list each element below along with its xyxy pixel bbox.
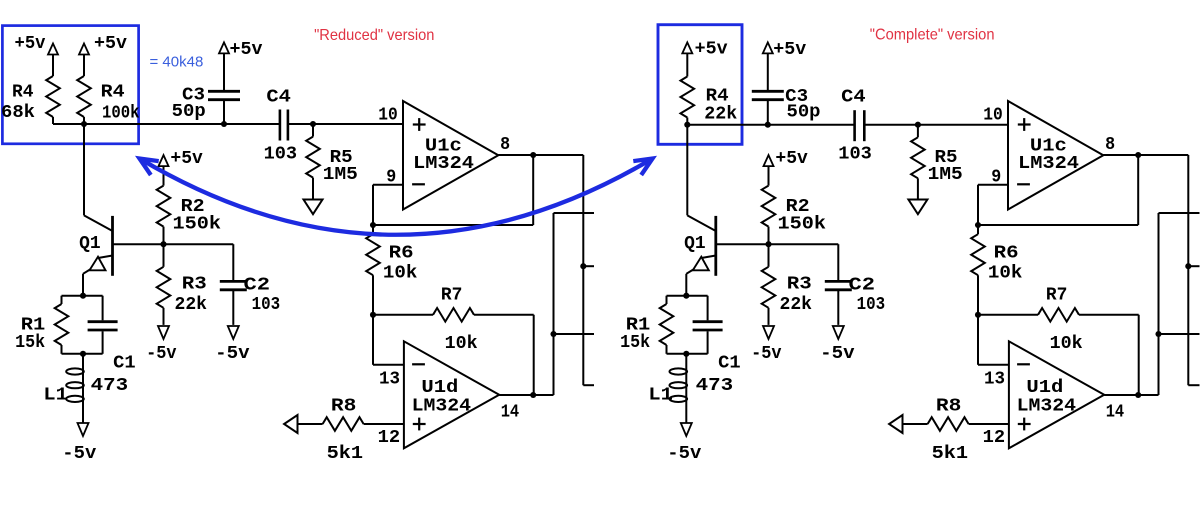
svg-text:473: 473 <box>696 376 734 396</box>
wire: R7 to output column <box>474 314 534 316</box>
node: emitter / tank top junction <box>683 293 689 299</box>
wire: C4 to U1c pin 10 <box>288 123 403 125</box>
blue double-headed arrow between R4 boxes <box>140 159 653 235</box>
power +5v arrow (R2) <box>159 155 169 166</box>
node: tank bottom junction <box>683 351 689 357</box>
svg-text:-5v: -5v <box>667 444 701 464</box>
capacitor C1 473 <box>707 296 709 321</box>
svg-text:R6: R6 <box>389 244 414 264</box>
capacitor C3 50p <box>752 90 784 93</box>
svg-text:+5v: +5v <box>773 40 806 60</box>
svg-text:150k: 150k <box>778 215 827 235</box>
wire: R7 to output column <box>1079 314 1139 316</box>
U1d plus input marking <box>1018 423 1031 425</box>
wire: output bus column A <box>1158 213 1160 395</box>
blue highlight box (reduced R4 pair) <box>2 26 138 144</box>
resistor R5 1M5 <box>312 124 314 137</box>
wire: main node row to C4 <box>53 123 280 125</box>
inductor L1 <box>685 354 687 423</box>
svg-text:12: 12 <box>983 428 1006 448</box>
wire: U1c output pin 8 <box>1103 154 1188 156</box>
svg-text:+5v: +5v <box>695 40 728 60</box>
wire: R8 to pin 12 <box>969 423 1009 425</box>
wire: pin 9 stub <box>978 184 1008 186</box>
svg-text:8: 8 <box>1105 135 1115 155</box>
svg-text:12: 12 <box>378 428 401 448</box>
node: column B junction <box>580 263 586 269</box>
power +5v arrow (C3) <box>763 42 773 53</box>
U1c minus input marking <box>1017 183 1030 185</box>
svg-text:R8: R8 <box>331 397 357 417</box>
svg-text:15k: 15k <box>15 333 45 353</box>
capacitor C1 473 <box>102 296 104 321</box>
node: column A junction <box>550 331 556 337</box>
svg-text:10: 10 <box>983 106 1003 126</box>
svg-text:Q1: Q1 <box>79 234 101 254</box>
resistor R7 10k <box>1038 308 1079 322</box>
node: tank bottom junction <box>80 351 86 357</box>
input port arrow (R8) <box>284 415 297 433</box>
node: R6 / R7 junction <box>975 312 981 318</box>
op-amp U1d LM324 <box>404 341 499 448</box>
node: column B junction <box>1185 263 1191 269</box>
node: R4 pair junction <box>81 121 87 127</box>
power -5v arrow (L1) <box>78 423 89 436</box>
power +5v arrow (R4 22k) <box>682 42 692 53</box>
svg-text:10k: 10k <box>1050 334 1083 354</box>
U1c plus input marking <box>1018 123 1031 125</box>
svg-text:10k: 10k <box>445 334 478 354</box>
resistor R2 150k <box>762 186 776 227</box>
svg-text:-5v: -5v <box>62 444 96 464</box>
svg-text:R8: R8 <box>936 397 962 417</box>
wire: output bus column B <box>582 155 584 385</box>
wire: C4 to U1c pin 10 <box>864 124 1008 126</box>
power +5v arrow (R4 68k) <box>48 44 58 55</box>
svg-text:150k: 150k <box>173 215 222 235</box>
svg-text:50p: 50p <box>787 103 821 123</box>
svg-text:10k: 10k <box>988 264 1023 284</box>
svg-text:R4: R4 <box>12 83 34 103</box>
svg-text:8: 8 <box>500 135 510 155</box>
svg-text:-5v: -5v <box>146 344 177 364</box>
svg-text:5k1: 5k1 <box>932 444 969 464</box>
svg-text:68k: 68k <box>1 103 35 123</box>
wire: tank bottom rail <box>667 353 708 355</box>
svg-text:LM324: LM324 <box>412 397 472 417</box>
power +5v arrow (C3) <box>219 42 229 53</box>
capacitor C4 103 <box>279 110 282 141</box>
wire: output bus column B <box>1187 155 1189 385</box>
node: C3 junction <box>765 122 771 128</box>
svg-text:1M5: 1M5 <box>323 165 358 185</box>
svg-text:-5v: -5v <box>820 344 855 364</box>
svg-text:R6: R6 <box>994 244 1019 264</box>
svg-text:13: 13 <box>379 370 400 390</box>
wire: tank top rail <box>62 295 103 297</box>
ground symbol (R5) <box>908 200 927 215</box>
svg-text:LM324: LM324 <box>1018 154 1079 174</box>
resistor R2 150k <box>157 186 171 227</box>
svg-text:R3: R3 <box>182 275 207 295</box>
svg-text:L1: L1 <box>648 386 673 406</box>
capacitor C4 103 <box>853 110 856 141</box>
wire: pin 9 stub <box>373 184 403 186</box>
resistor R8 5k1 <box>323 417 364 431</box>
wire: Q1 base row <box>113 243 234 245</box>
svg-text:13: 13 <box>984 370 1005 390</box>
svg-text:103: 103 <box>838 144 872 164</box>
blue highlight box (complete R4) <box>658 25 742 145</box>
svg-text:"Complete" version: "Complete" version <box>870 27 995 44</box>
svg-text:"Reduced" version: "Reduced" version <box>314 27 434 44</box>
svg-text:15k: 15k <box>620 333 650 353</box>
wire: node to Q1 collector <box>83 124 85 215</box>
svg-text:+5v: +5v <box>15 34 46 54</box>
svg-text:C2: C2 <box>849 276 876 296</box>
wire: node to R7 <box>978 314 1038 316</box>
resistor R1 15k <box>666 296 668 304</box>
op-amp U1d LM324 <box>1009 341 1104 448</box>
wire: node to Q1 collector <box>686 125 688 216</box>
svg-text:473: 473 <box>91 376 129 396</box>
svg-text:+5v: +5v <box>230 40 263 60</box>
svg-text:LM324: LM324 <box>413 154 474 174</box>
resistor R3 22k <box>768 244 770 267</box>
U1c plus input marking <box>413 123 426 125</box>
op-amp U1c LM324 <box>1008 101 1103 210</box>
power +5v arrow (R2) <box>764 155 774 166</box>
svg-text:10k: 10k <box>383 264 418 284</box>
svg-text:C1: C1 <box>718 354 741 374</box>
node: R4 junction <box>684 122 690 128</box>
svg-text:22k: 22k <box>780 295 813 315</box>
power -5v arrow (R3) <box>158 326 169 339</box>
svg-text:C1: C1 <box>113 354 136 374</box>
wire: U1d output pin 14 <box>499 394 553 396</box>
svg-text:Q1: Q1 <box>684 234 706 254</box>
U1c minus input marking <box>412 183 425 185</box>
svg-text:R3: R3 <box>787 275 812 295</box>
resistor R4 22k <box>681 77 695 118</box>
node: emitter / tank top junction <box>80 293 86 299</box>
svg-text:50p: 50p <box>172 102 206 122</box>
wire: tank top rail <box>667 295 708 297</box>
resistor R1 15k <box>61 296 63 304</box>
node: C3 junction <box>221 121 227 127</box>
wire: output bus column A <box>553 213 555 395</box>
resistor R8 5k1 <box>928 417 969 431</box>
svg-text:103: 103 <box>252 295 281 315</box>
svg-text:C4: C4 <box>841 88 866 108</box>
svg-text:103: 103 <box>857 295 886 315</box>
wire: Q1 base row <box>716 243 839 245</box>
capacitor C2 103 <box>837 244 839 280</box>
resistor R5 1M5 <box>917 125 919 138</box>
U1d minus input marking <box>1017 363 1030 365</box>
resistor R4 100k <box>77 76 91 117</box>
node: base / R2 / R3 junction <box>160 241 166 247</box>
node: R7 feedback junction <box>1135 392 1141 398</box>
node: column A junction <box>1155 331 1161 337</box>
svg-text:R7: R7 <box>441 286 463 306</box>
svg-text:+5v: +5v <box>170 149 203 169</box>
svg-text:+5v: +5v <box>94 34 127 54</box>
capacitor C3 50p <box>208 90 240 93</box>
svg-text:C4: C4 <box>266 88 291 108</box>
resistor R3 22k <box>163 244 165 267</box>
power -5v arrow (R3) <box>763 326 774 339</box>
node: R5 junction <box>310 121 316 127</box>
svg-text:U1d: U1d <box>421 378 458 398</box>
U1d minus input marking <box>412 363 425 365</box>
svg-text:103: 103 <box>264 144 298 164</box>
svg-text:100k: 100k <box>102 104 140 124</box>
svg-text:C2: C2 <box>244 276 271 296</box>
power +5v arrow (R4 100k) <box>79 44 89 55</box>
input port arrow (R8) <box>889 415 902 433</box>
ground symbol (R5) <box>304 200 323 215</box>
wire: main node row to C4 <box>687 124 854 126</box>
node: pin 9 / R6 junction <box>975 222 981 228</box>
svg-text:22k: 22k <box>704 105 737 125</box>
wire: tank bottom rail <box>62 353 103 355</box>
svg-text:5k1: 5k1 <box>327 444 364 464</box>
wire: U1c output pin 8 <box>498 154 583 156</box>
power -5v arrow (C2) <box>228 326 239 339</box>
wire: node to pin 13 <box>977 315 979 365</box>
svg-text:-5v: -5v <box>751 344 782 364</box>
svg-text:L1: L1 <box>43 386 68 406</box>
node: R6 / R7 junction <box>370 312 376 318</box>
svg-text:R4: R4 <box>101 83 125 103</box>
node: R7 feedback junction <box>530 392 536 398</box>
node: pin 9 / R6 junction <box>370 222 376 228</box>
node: U1c output junction <box>530 152 536 158</box>
svg-text:1M5: 1M5 <box>928 165 963 185</box>
resistor R6 10k <box>977 225 979 234</box>
inductor L1 <box>82 354 84 423</box>
wire: port to R8 <box>903 423 928 425</box>
wire: feedback pin8 to pin9 node <box>1137 155 1139 225</box>
node: base / R2 / R3 junction <box>765 241 771 247</box>
resistor R4 68k <box>46 76 60 117</box>
wire: node to pin 13 <box>372 315 374 365</box>
svg-text:14: 14 <box>1106 403 1125 423</box>
svg-text:U1d: U1d <box>1026 378 1063 398</box>
wire: feedback pin8 to pin9 node <box>532 155 534 225</box>
U1d plus input marking <box>413 423 426 425</box>
node: R5 junction <box>915 122 921 128</box>
svg-text:R7: R7 <box>1046 286 1068 306</box>
svg-text:= 40k48: = 40k48 <box>150 53 204 70</box>
resistor R7 10k <box>433 308 474 322</box>
node: U1c output junction <box>1135 152 1141 158</box>
svg-text:22k: 22k <box>175 295 208 315</box>
wire: R8 to pin 12 <box>364 423 404 425</box>
power -5v arrow (L1) <box>681 423 692 436</box>
resistor R6 10k <box>372 225 374 234</box>
wire: port to R8 <box>298 423 323 425</box>
capacitor C2 103 <box>232 244 234 280</box>
wire: node to R7 <box>373 314 433 316</box>
op-amp U1c LM324 <box>403 101 498 210</box>
svg-text:-5v: -5v <box>215 344 250 364</box>
svg-text:LM324: LM324 <box>1017 397 1077 417</box>
transistor Q1 <box>687 215 716 231</box>
svg-text:14: 14 <box>501 403 520 423</box>
transistor Q1 <box>84 215 113 231</box>
power -5v arrow (C2) <box>833 326 844 339</box>
svg-text:+5v: +5v <box>775 149 808 169</box>
wire: U1d output pin 14 <box>1104 394 1158 396</box>
svg-text:10: 10 <box>378 106 398 126</box>
